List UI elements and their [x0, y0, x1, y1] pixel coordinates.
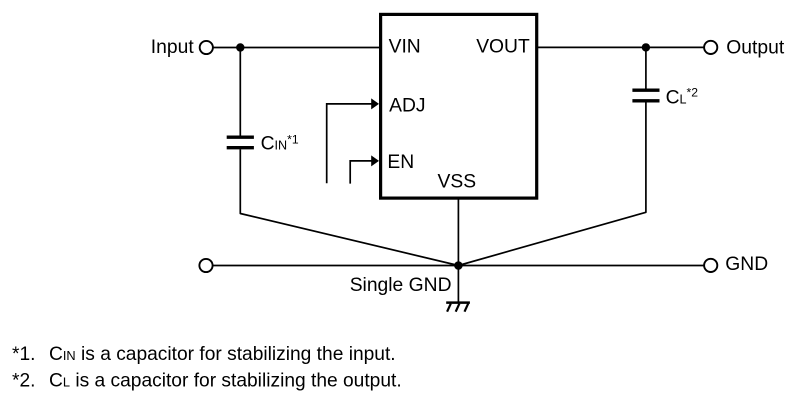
svg-text:VOUT: VOUT: [476, 37, 530, 58]
GND terminal circle: [704, 259, 717, 272]
capacitor CIN: [227, 137, 254, 148]
ground symbol: [446, 303, 470, 312]
svg-text:*2.CL is a capacitor for stabi: *2.CL is a capacitor for stabilizing the…: [12, 370, 402, 391]
svg-text:VSS: VSS: [438, 172, 477, 193]
svg-text:Output: Output: [726, 38, 785, 59]
junction node at output: [642, 43, 650, 51]
svg-text:EN: EN: [387, 152, 414, 173]
wire: VSS pin down through GND node to ground symbol: [457, 198, 459, 302]
arrowhead into EN pin: [371, 155, 379, 166]
wire: output junction down to CL top plate: [645, 47, 647, 88]
arrowhead into ADJ pin: [371, 98, 379, 109]
svg-text:GND: GND: [725, 254, 768, 275]
bottom-left GND terminal circle: [199, 259, 212, 272]
wire: EN input stub with elbow: [350, 161, 372, 184]
junction node at input: [236, 43, 244, 51]
svg-text:Single GND: Single GND: [350, 275, 452, 296]
svg-text:*1.CIN is a capacitor for stab: *1.CIN is a capacitor for stabilizing th…: [12, 344, 396, 365]
svg-text:VIN: VIN: [389, 37, 421, 58]
wire: ADJ input stub with elbow: [327, 104, 372, 183]
wire: CL bottom plate down and diagonal to single GND node: [458, 102, 646, 265]
Input terminal circle: [200, 41, 213, 54]
wire: bottom GND bus: [214, 265, 704, 267]
capacitor CL: [632, 90, 659, 101]
wire: Input terminal to VIN pin: [214, 47, 381, 49]
wire: input junction down to CIN top plate: [239, 48, 241, 136]
svg-text:ADJ: ADJ: [389, 96, 425, 117]
Output terminal circle: [704, 41, 717, 54]
wire: VOUT pin to Output terminal: [538, 46, 704, 48]
svg-text:Input: Input: [151, 37, 195, 58]
single GND junction node: [454, 261, 463, 270]
op-amp/regulator IC box U1: [381, 14, 537, 198]
wire: CIN bottom plate down and diagonal to single GND node: [240, 149, 458, 265]
